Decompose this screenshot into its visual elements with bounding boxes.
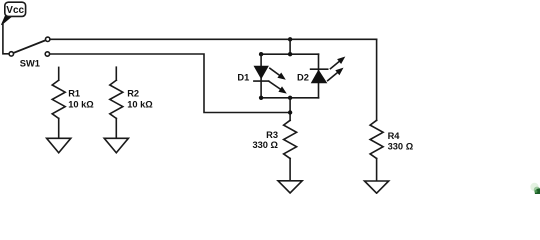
svg-text:R2: R2 — [127, 88, 139, 98]
svg-text:Vcc: Vcc — [6, 5, 24, 16]
svg-text:D1: D1 — [237, 72, 249, 82]
LED D1 — [237, 66, 286, 93]
svg-text:10 kΩ: 10 kΩ — [68, 100, 94, 110]
resistor R1 — [52, 67, 94, 138]
wire LED bridge bottom — [261, 97, 318, 99]
node bridge bottom-left — [259, 96, 263, 100]
wire D1 branch vertical — [260, 54, 262, 98]
wire top rail from SW1 upper throw to right — [50, 38, 377, 40]
svg-text:330 Ω: 330 Ω — [388, 142, 414, 152]
svg-text:R4: R4 — [388, 131, 401, 141]
wire bridge bottom to R3 — [289, 98, 291, 121]
wire right vertical to R4 — [376, 39, 378, 120]
svg-text:10 kΩ: 10 kΩ — [127, 100, 153, 110]
svg-text:R3: R3 — [266, 130, 278, 140]
node R3 top junction — [288, 110, 292, 114]
wire SW1 lower throw to R3 node — [50, 54, 290, 113]
svg-text:SW1: SW1 — [20, 58, 40, 68]
svg-text:R1: R1 — [68, 88, 80, 98]
wire D2 branch vertical — [318, 54, 320, 98]
ground (R1) — [47, 138, 71, 153]
node bridge bottom-center — [288, 96, 292, 100]
resistor R3 — [252, 120, 296, 181]
node top-rail junction — [288, 37, 292, 41]
switch SW1 — [9, 37, 50, 68]
node bridge top-left — [259, 52, 263, 56]
ground (R2) — [104, 138, 128, 153]
wire LED bridge top — [261, 53, 318, 55]
svg-text:D2: D2 — [297, 72, 309, 82]
resistor R2 — [110, 67, 153, 138]
ground (R3) — [278, 181, 302, 193]
ground (R4) — [365, 181, 389, 193]
resistor R4 — [370, 120, 414, 181]
svg-text:330 Ω: 330 Ω — [252, 140, 278, 150]
wire Vcc to SW1 common — [3, 24, 9, 54]
power flag Vcc — [2, 2, 26, 25]
LED D2 — [297, 57, 345, 83]
node bridge top-center — [288, 52, 292, 56]
watermark green blob bottom-right corner — [530, 183, 540, 197]
wire branch down to LED bridge — [289, 39, 291, 54]
